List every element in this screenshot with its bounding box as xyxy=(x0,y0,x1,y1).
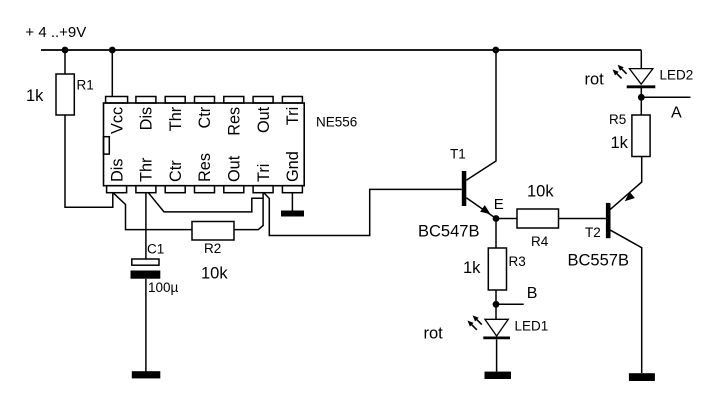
junction rail-Vcc xyxy=(109,47,116,54)
svg-text:Thr: Thr xyxy=(167,106,185,131)
pin stub bottom 5 Out xyxy=(224,186,244,193)
T1 emitter arrow xyxy=(480,205,490,214)
resistor R5 xyxy=(632,115,650,157)
junction rail-R1 xyxy=(62,47,69,54)
transistor Q1 T1 base bar xyxy=(462,171,467,206)
svg-text:Thr: Thr xyxy=(138,157,156,182)
svg-text:Out: Out xyxy=(226,155,244,182)
svg-text:rot: rot xyxy=(585,71,605,89)
svg-text:T2: T2 xyxy=(585,225,601,240)
wire rail to LED2 xyxy=(640,50,642,69)
resistor R4 xyxy=(517,209,559,228)
svg-text:Res: Res xyxy=(196,153,214,182)
T2 emitter arrow xyxy=(625,192,635,202)
node E xyxy=(493,215,500,222)
svg-text:R5: R5 xyxy=(609,112,626,127)
svg-text:B: B xyxy=(527,285,538,302)
LED2 arrow 1 xyxy=(620,68,626,74)
pin stub bottom 1 Dis xyxy=(107,186,127,193)
svg-text:C1: C1 xyxy=(147,242,164,257)
svg-text:R1: R1 xyxy=(77,78,94,93)
resistor R3 xyxy=(488,248,506,290)
svg-text:Res: Res xyxy=(226,107,244,136)
junction rail-T1 collector xyxy=(492,47,499,54)
op IC body NE556 U1 xyxy=(104,103,305,186)
resistor R2 xyxy=(192,222,234,241)
wire R3 to LED1 xyxy=(495,290,497,320)
LED1 diode xyxy=(485,319,508,336)
wire node A stub xyxy=(641,96,690,98)
svg-text:Tri: Tri xyxy=(284,107,302,125)
svg-text:NE556: NE556 xyxy=(316,115,357,130)
pin stub bottom 2 Thr xyxy=(136,186,156,193)
pin stub top 6 Out xyxy=(253,97,273,104)
LED2 diode xyxy=(629,69,653,85)
svg-text:Dis: Dis xyxy=(138,107,156,131)
pin stub top 7 Tri xyxy=(282,97,302,104)
svg-text:10k: 10k xyxy=(527,183,554,201)
svg-text:R4: R4 xyxy=(531,234,549,249)
wire E to R4 xyxy=(496,218,517,220)
wire T1 emitter xyxy=(466,198,496,219)
wire LED2 to R5 xyxy=(640,88,642,115)
wire power rail xyxy=(41,49,641,51)
LED1 arrow 1 xyxy=(475,318,481,324)
svg-text:1k: 1k xyxy=(26,87,44,105)
LED2 arrow 2 xyxy=(615,72,621,78)
svg-text:1k: 1k xyxy=(611,134,629,152)
wire rail to R1 xyxy=(64,50,66,74)
ground T2 xyxy=(629,373,655,381)
node A xyxy=(638,94,645,101)
pin stub top 2 Dis xyxy=(136,97,156,104)
svg-text:Out: Out xyxy=(255,106,273,133)
svg-text:Dis: Dis xyxy=(108,158,126,182)
svg-text:rot: rot xyxy=(424,325,444,343)
wire T2 emitter to R5 xyxy=(610,157,642,210)
svg-text:A: A xyxy=(671,105,682,122)
svg-text:10k: 10k xyxy=(201,265,228,283)
svg-text:LED1: LED1 xyxy=(515,319,549,334)
ground LED1 xyxy=(485,372,512,379)
svg-text:Tri: Tri xyxy=(255,164,273,182)
pin stub bottom 3 Ctr xyxy=(165,186,185,193)
transistor Q2 T2 base bar xyxy=(606,203,611,238)
wire T2 collector to ground xyxy=(610,230,642,373)
IC notch mark xyxy=(104,137,110,154)
svg-text:+ 4 ..+9V: + 4 ..+9V xyxy=(25,24,86,41)
wire T1 collector xyxy=(466,50,496,180)
wire Thr diag to Tri node xyxy=(148,193,263,212)
node B xyxy=(493,301,500,308)
wire Gnd pin down xyxy=(291,193,293,211)
wire Tri pin to R2 right xyxy=(234,193,263,230)
svg-text:100µ: 100µ xyxy=(148,280,179,295)
wire node B stub xyxy=(496,303,524,305)
pin stub top 3 Thr xyxy=(165,97,185,104)
svg-text:R3: R3 xyxy=(509,254,526,269)
ground IC Gnd xyxy=(281,211,304,217)
svg-text:BC557B: BC557B xyxy=(568,252,629,270)
pin stub top 4 Ctr xyxy=(195,97,215,104)
svg-text:1k: 1k xyxy=(463,259,481,277)
ground C1 xyxy=(132,371,161,378)
svg-text:Vcc: Vcc xyxy=(108,107,126,134)
svg-text:R2: R2 xyxy=(204,241,221,256)
svg-text:BC547B: BC547B xyxy=(418,223,479,241)
wire Thr pin down to C1 xyxy=(145,193,147,259)
svg-text:Ctr: Ctr xyxy=(196,106,214,128)
svg-text:T1: T1 xyxy=(450,147,466,162)
wire LED1 to ground xyxy=(496,339,498,371)
LED1 arrow 2 xyxy=(470,323,477,330)
wire C1 to ground xyxy=(145,279,147,372)
wire rail to Vcc pin xyxy=(111,50,113,97)
capacitor C1 xyxy=(132,259,159,265)
pin stub bottom 7 Gnd xyxy=(282,186,302,193)
wire E down to R3 xyxy=(495,219,497,249)
wire R4 to T2 base xyxy=(559,218,606,220)
wire R1 bottom to Dis pin xyxy=(65,115,113,207)
svg-text:Gnd: Gnd xyxy=(284,151,302,182)
pin stub top 5 Res xyxy=(224,97,244,104)
pin stub bottom 4 Res xyxy=(195,186,215,193)
resistor R1 xyxy=(56,74,74,115)
svg-text:LED2: LED2 xyxy=(660,68,694,83)
pin stub top 1 Vcc xyxy=(106,97,128,104)
wire Dis pin to R2 left xyxy=(113,193,192,230)
svg-text:Ctr: Ctr xyxy=(167,160,185,182)
pin stub bottom 6 Tri xyxy=(253,186,273,193)
svg-text:E: E xyxy=(494,196,504,213)
wire Tri pin to T1 base xyxy=(264,189,462,235)
